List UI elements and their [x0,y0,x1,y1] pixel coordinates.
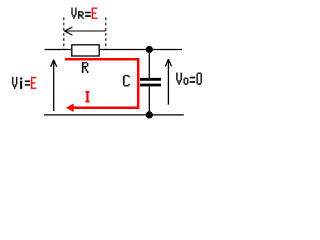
current loop (red) [65,59,138,107]
label Vi : V [12,77,17,89]
label Vo : = [190,77,195,83]
label I current (red) [86,91,90,102]
label Vi : = [25,81,30,86]
label VR : = [85,12,90,17]
label C value [123,75,130,86]
junction dot bottom [146,111,153,118]
junction dot top [146,46,153,53]
dashed extent line left [63,18,65,50]
capacitor C plate bottom [140,84,161,87]
capacitor C plate top [140,78,161,81]
label Vi : i dot+stem [20,78,22,89]
arrow Vi input voltage (up) [51,60,57,111]
label Vo : o [184,78,189,85]
label VR : E (red) [92,8,98,19]
resistor R body [72,45,99,56]
label VR : V [72,8,77,19]
arrow VR measure (points left) [64,27,105,35]
label Vi : E (red) [31,77,36,89]
wire bottom horizontal [44,114,184,116]
wire capacitor bottom lead [148,86,150,115]
current loop arrowhead (red) [66,104,74,112]
arrow Vo output voltage (up) [165,59,171,105]
wire top horizontal [45,49,183,51]
label Vo : 0 [197,73,202,85]
label Vo : V [176,73,181,85]
label VR : R subscript [78,11,83,18]
wire capacitor top lead [148,50,150,79]
dashed extent line right [105,18,107,50]
label R value [82,62,88,73]
